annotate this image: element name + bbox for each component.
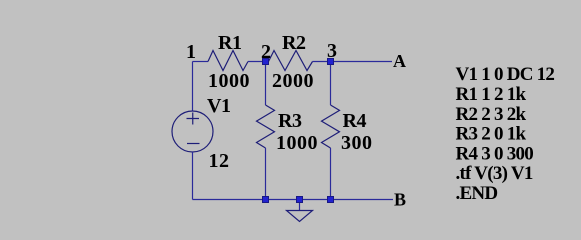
wire ground stub	[299, 200, 301, 211]
svg-text:1: 1	[186, 41, 196, 63]
svg-text:A: A	[393, 51, 406, 71]
svg-text:12: 12	[209, 150, 230, 172]
V1 plus sign	[187, 113, 200, 125]
node 3 junction	[328, 59, 334, 65]
wire node 3 down to R4	[330, 62, 332, 106]
svg-text:R1 1 2 1k: R1 1 2 1k	[456, 84, 527, 105]
svg-text:R3 2 0 1k: R3 2 0 1k	[456, 124, 527, 145]
wire R4 to bottom	[330, 148, 332, 200]
svg-text:2000: 2000	[272, 70, 314, 92]
V1 minus sign	[187, 143, 200, 145]
bottom junction at ground	[297, 197, 303, 203]
svg-text:R3: R3	[278, 110, 302, 132]
node 2 junction	[263, 59, 269, 65]
svg-text:1000: 1000	[276, 132, 318, 154]
wire left branch upper	[192, 62, 194, 112]
svg-text:V1 1 0 DC 12: V1 1 0 DC 12	[456, 64, 555, 85]
ground	[287, 211, 313, 222]
wire node 2 down to R3	[265, 62, 267, 106]
svg-text:.END: .END	[456, 183, 498, 204]
voltage source V1 circle	[172, 111, 213, 152]
svg-text:3: 3	[327, 40, 337, 62]
resistor R3	[257, 105, 275, 148]
bottom junction at R4	[328, 197, 334, 203]
resistor R1	[208, 51, 248, 71]
svg-text:B: B	[394, 189, 406, 209]
svg-text:R4 3 0 300: R4 3 0 300	[456, 143, 534, 164]
svg-text:1000: 1000	[208, 70, 250, 92]
wire left branch lower	[192, 152, 194, 200]
svg-text:R2: R2	[282, 32, 306, 54]
bottom junction at R3	[263, 197, 269, 203]
wire bottom rail to node B	[193, 199, 394, 201]
svg-text:2: 2	[261, 41, 271, 63]
wire R3 to bottom	[265, 148, 267, 200]
wire node1 top corner to R1	[193, 61, 209, 63]
resistor R4	[322, 105, 340, 148]
svg-text:R2 2 3 2k: R2 2 3 2k	[456, 104, 527, 125]
svg-text:V1: V1	[207, 95, 231, 117]
svg-text:R1: R1	[218, 32, 242, 54]
svg-text:.tf V(3) V1: .tf V(3) V1	[456, 163, 533, 184]
resistor R2	[269, 51, 313, 71]
svg-text:R4: R4	[343, 110, 367, 132]
svg-text:300: 300	[341, 132, 373, 154]
wire node 3 to node A	[313, 61, 393, 63]
wire R1 to node 2	[248, 61, 269, 63]
